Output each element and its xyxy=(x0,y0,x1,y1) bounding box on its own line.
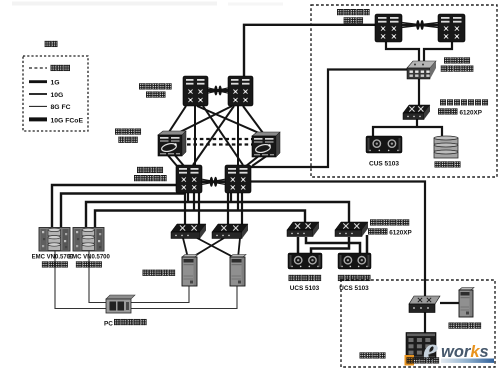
right-box campus switch A1 xyxy=(375,14,402,42)
feeder vertical DC-L to bus D xyxy=(193,192,195,211)
CUS 5103 chassis xyxy=(366,136,402,153)
wire firewall-L to DC-L a xyxy=(166,153,177,166)
backup storage 备份存储 xyxy=(434,136,458,158)
svg-text:8G FC: 8G FC xyxy=(51,104,71,111)
svg-text:UCS 5103: UCS 5103 xyxy=(290,285,320,292)
svg-text:6120XP: 6120XP xyxy=(460,109,482,116)
label 备份存储 xyxy=(435,161,441,167)
blade interconnect 6120 L xyxy=(287,222,319,237)
label 备份服务器 xyxy=(449,323,455,329)
wire DC-L to access switch L a xyxy=(184,192,186,225)
EMC storage R xyxy=(73,228,104,252)
FC wire tower-R to storage switch xyxy=(131,286,237,309)
feeder vertical DC-R to bus C xyxy=(230,192,232,202)
top-right dashed container box xyxy=(311,5,497,177)
wire firewall-L to DC-L b xyxy=(173,153,184,166)
svg-text:UCS 5103: UCS 5103 xyxy=(339,285,369,292)
wire access-L to tower-L xyxy=(183,238,188,258)
campus core switch R xyxy=(228,76,253,106)
wire access-R to tower-R xyxy=(238,238,240,258)
svg-text:10G: 10G xyxy=(51,92,64,99)
wire right-box campus A2 down to DC switch xyxy=(424,42,452,61)
label 校园网核心 (main) xyxy=(139,83,145,89)
wire 6120-R to UCS-L cross xyxy=(311,237,349,253)
label 刀片子服务器互 xyxy=(440,99,446,105)
label 数据中心 (right box) xyxy=(444,57,450,63)
left bus line B to EMC-L xyxy=(61,192,183,227)
blade chassis UCS L xyxy=(288,253,322,269)
FC storage switch xyxy=(106,295,135,313)
wire campus-R to DC-L diagonal xyxy=(193,106,234,165)
wire campus-R up to right box xyxy=(244,25,375,77)
svg-text:CUS 5103: CUS 5103 xyxy=(369,160,399,167)
right-box campus pair link xyxy=(402,20,438,30)
rack server L xyxy=(182,255,198,287)
wire access-L to tower-R diagonal xyxy=(197,238,235,258)
blade chassis UCS R xyxy=(338,253,371,269)
wire campus-R down to DC-R xyxy=(237,106,239,165)
wire access-R to tower-L diagonal xyxy=(191,238,224,258)
right-box campus switch A2 xyxy=(438,14,465,42)
wire DC-R to backup switch (long vertical) xyxy=(251,182,425,297)
svg-text:10G FCoE: 10G FCoE xyxy=(51,117,84,124)
label 防火墙 xyxy=(118,137,124,143)
legend title 图例 xyxy=(45,41,51,47)
wire right-box campus A1 down to DC switch xyxy=(386,42,419,61)
right-box DC core switch xyxy=(407,61,436,79)
wire campus-L to firewall-L xyxy=(169,106,186,132)
label 统一存储 R xyxy=(76,261,82,267)
wire DC-R to access switch R b xyxy=(241,192,243,225)
wire campus-L down to DC-L xyxy=(194,106,196,165)
label 刀片服务器 R xyxy=(338,275,344,281)
wire DC-L to access switch L b xyxy=(198,192,200,225)
label 数据中心 (firewall) xyxy=(115,128,121,134)
label 交换机 (main) xyxy=(146,91,152,97)
FC wire tower-L to storage switch xyxy=(131,286,189,303)
bus line C spanning to 6120-R xyxy=(86,202,349,227)
firewall L 数据中心防火墙 xyxy=(158,131,186,156)
label 刀片服务器 L xyxy=(289,275,295,281)
rack server R xyxy=(230,255,246,287)
wire campus-L to DC-R diagonal xyxy=(203,106,243,165)
right-box 6120 interconnect xyxy=(403,105,430,120)
wire campus-R to firewall-R xyxy=(243,106,263,133)
legend row 8G FC xyxy=(29,105,47,107)
heartbeat dashed line 2 between firewalls xyxy=(187,143,252,145)
label 机架服务器 xyxy=(143,270,149,276)
wire 6120-L to UCS-L xyxy=(297,237,300,253)
campus switch pair link xyxy=(208,86,228,96)
bus line D spanning to 6120-L xyxy=(95,211,305,228)
FC wire EMC-L to storage switch xyxy=(55,251,106,309)
label 数据中心 (DC core) xyxy=(137,167,143,173)
legend row 1G xyxy=(29,80,47,83)
legend row 10G xyxy=(29,93,47,95)
tape library xyxy=(406,333,436,359)
label 交换机 (right box) xyxy=(344,17,350,23)
backup server tower xyxy=(459,288,474,318)
svg-text:1G: 1G xyxy=(51,80,60,87)
svg-text:works: works xyxy=(441,343,489,361)
wire right-box DC switch to 6120 xyxy=(418,79,420,106)
blade interconnect 6120 R xyxy=(335,222,368,237)
feeder vertical DC-R to bus D xyxy=(237,192,239,211)
svg-text:EMC VN0.5700: EMC VN0.5700 xyxy=(68,255,110,261)
legend text 心跳线 xyxy=(51,65,57,71)
backup center switch xyxy=(409,296,440,313)
svg-text:PC: PC xyxy=(104,320,113,327)
wire DC-R to access switch R a xyxy=(227,192,229,225)
wire firewall-R to DC-R a xyxy=(246,155,260,166)
left bus line A to EMC-L xyxy=(52,185,176,227)
label 核心交换机 (right box) xyxy=(441,66,447,72)
wire 6120 bottom stub xyxy=(416,119,418,127)
label 联矩阵 (main) xyxy=(368,228,374,234)
wire campus-R to firewall-L xyxy=(180,106,232,132)
label 校园网核心 (right box) xyxy=(337,9,343,15)
rack access switch R xyxy=(212,224,248,239)
label 统一存储 L xyxy=(42,261,48,267)
wire backup switch to tape library xyxy=(424,312,426,334)
label 虚拟磁带库 xyxy=(407,357,413,363)
wire 6120-R to UCS-R xyxy=(366,235,369,253)
campus core switch L xyxy=(183,76,208,106)
heartbeat dashed line 1 between firewalls xyxy=(187,138,252,140)
legend row 10G FCoE xyxy=(29,117,47,121)
FC wire EMC-R to storage switch xyxy=(89,251,106,303)
label 联矩阵 (right box) xyxy=(438,108,444,114)
label 备份中心 xyxy=(360,352,366,358)
wire 6120 split to CUS chassis and backup storage xyxy=(373,127,442,136)
bottom-right backup center dashed box xyxy=(341,280,495,367)
firewall R xyxy=(252,132,280,157)
wire backup switch to backup server xyxy=(440,302,459,304)
wire DC-R to right-box DC switch xyxy=(251,70,407,168)
wire campus-L to firewall-R xyxy=(197,106,259,133)
legend dashed box xyxy=(23,56,88,131)
DC switch pair link xyxy=(202,177,225,187)
DC core switch R xyxy=(225,165,251,193)
wire firewall-R to DC-R b xyxy=(252,155,268,166)
DC core switch L xyxy=(176,165,202,193)
svg-text:6120XP: 6120XP xyxy=(389,229,411,236)
wire 6120-L to UCS-R cross xyxy=(306,237,360,253)
feeder vertical DC-L to bus C xyxy=(187,192,189,202)
label 刀片服务器互 (main) xyxy=(370,219,376,225)
e-works watermark xyxy=(405,330,495,369)
rack access switch L xyxy=(171,224,206,239)
faint artifact band xyxy=(12,2,217,6)
legend row heartbeat dashed line xyxy=(29,67,47,69)
label 核心交换机 (DC core) xyxy=(134,175,140,181)
EMC storage L xyxy=(39,228,70,252)
